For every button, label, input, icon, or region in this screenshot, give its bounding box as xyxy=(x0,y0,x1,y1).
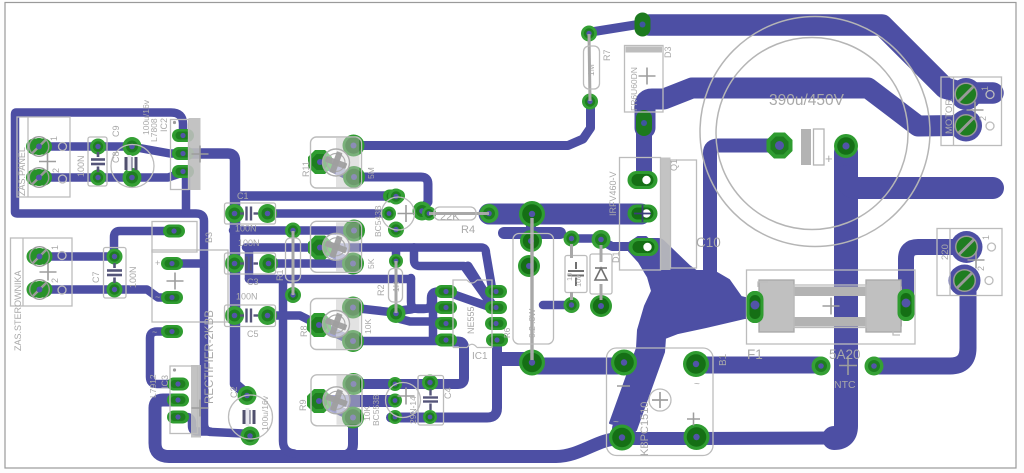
svg-text:10K: 10K xyxy=(363,319,373,334)
svg-text:5M: 5M xyxy=(366,167,376,179)
transistor Q3 pads xyxy=(388,377,402,391)
resistor R7 outline xyxy=(589,34,590,101)
svg-text:~: ~ xyxy=(152,327,157,337)
IC3 regulator outline xyxy=(170,366,198,434)
wire: IC1 pin5 down corner to Q3/C4 bottom band xyxy=(391,341,497,418)
svg-text:L7808: L7808 xyxy=(149,118,159,142)
svg-text:D3: D3 xyxy=(663,46,673,58)
capacitor C6 outline xyxy=(565,256,587,293)
wire: y247 extension down to IC1 pin8 xyxy=(414,248,492,289)
svg-text:C5: C5 xyxy=(247,329,259,339)
wire: R2 bottom to IC1 pin3 xyxy=(400,319,444,322)
svg-text:L7912: L7912 xyxy=(148,374,158,398)
transistor Q2 BC543B outline xyxy=(382,197,415,230)
wire: R9 bottom-right down to bottom rail xyxy=(342,418,353,456)
svg-text:KBPC1510: KBPC1510 xyxy=(639,402,651,456)
svg-text:R2: R2 xyxy=(376,284,386,296)
wire: V1 branch to R10 top-right pad xyxy=(233,226,353,235)
transistor Q1 pads xyxy=(628,171,658,189)
wire: horizontal net y279 xyxy=(249,275,411,284)
terminal MOTOR outline xyxy=(941,77,1002,146)
trimmer R9 body xyxy=(311,375,362,426)
transistor Q3 outline xyxy=(386,383,421,418)
wire: R8 top-right to R2 bottom then IC1 pin2 xyxy=(355,308,444,312)
wire: C10 right branch y188 dead-end run xyxy=(846,176,993,188)
wire: IC3 pin2 down to long bottom rail to B1 xyxy=(155,400,837,457)
wire: trigger band R9 top-right to riser xyxy=(355,342,464,385)
svg-text:C2: C2 xyxy=(229,386,239,398)
svg-text:1: 1 xyxy=(49,136,59,141)
wire: C10 left pad to junction blob via x710 xyxy=(710,146,778,297)
wire: Q1 source band down to junction blob xyxy=(648,247,706,288)
svg-text:2: 2 xyxy=(978,116,988,121)
wire: C1 right pad to BC543B base xyxy=(268,209,388,218)
wire: big top feed to MOTOR pin1 xyxy=(649,25,993,93)
wire: R9 wiper diagonal xyxy=(320,402,351,417)
wire: thick power run R4 right pad to Q1 gate row xyxy=(489,204,641,225)
capacitor C5 pads xyxy=(225,306,244,325)
IC3 regulator pads xyxy=(167,378,189,391)
fuse F1 outline xyxy=(747,270,916,344)
capacitor C9 outline xyxy=(111,145,154,188)
IC2 regulator outline xyxy=(171,120,189,190)
svg-text:C3: C3 xyxy=(247,277,259,287)
wire: D1 top to Q1 source pad xyxy=(604,242,628,247)
resistor R5 pads and vias xyxy=(519,201,545,227)
capacitor C6 pads xyxy=(564,231,580,247)
resistor R2 pads xyxy=(389,254,403,268)
wire: screw1 STEROWNIKA to C7 top xyxy=(40,252,114,261)
wire: R10 wiper diagonal xyxy=(320,248,352,264)
wire: branch x283 down to bottom rail xyxy=(283,280,294,454)
svg-text:FR6U60DN: FR6U60DN xyxy=(629,67,639,111)
wire: junction blob fill xyxy=(610,237,753,430)
diode D1 outline xyxy=(590,254,612,294)
resistor R7 pads xyxy=(581,26,597,42)
wire: R5 bottom pad to B1 plus pad xyxy=(536,358,618,375)
svg-text:R11: R11 xyxy=(301,161,311,177)
wire: screw2 row to C8/C9 bottoms and IC2 pin3 xyxy=(40,173,183,178)
trimmer R10 body xyxy=(311,221,362,272)
svg-text:100N: 100N xyxy=(236,292,258,302)
svg-text:~: ~ xyxy=(613,417,619,428)
capacitor C8 outline xyxy=(88,137,107,186)
diode D3 outline xyxy=(625,46,664,113)
svg-text:R7: R7 xyxy=(602,49,612,61)
capacitor C7 pads xyxy=(107,249,123,265)
wire: R11 wiper diagonal xyxy=(320,162,353,178)
wire: R5 top via link xyxy=(526,216,536,240)
svg-text:ZAS.PANEL: ZAS.PANEL xyxy=(17,147,27,196)
capacitor C10 pads xyxy=(767,133,793,159)
svg-text:C1: C1 xyxy=(237,191,249,201)
trimmer R9 pads xyxy=(307,389,331,413)
wire: R9 left pad to Q3 base xyxy=(320,395,393,407)
wire: IC3 pin3 stub to gnd rail end xyxy=(178,417,210,432)
wire: fuse right pad up and over to 220 pin1 xyxy=(906,247,961,298)
wire: B1 diagonal to minus pad xyxy=(624,351,650,429)
capacitor C10 outline xyxy=(700,17,930,247)
svg-text:0.2 .3W: 0.2 .3W xyxy=(527,309,537,338)
svg-text:22K: 22K xyxy=(440,211,460,223)
trimmer R11 body xyxy=(311,137,362,188)
wire: C3 right pad to R10 bottom-right pad xyxy=(269,259,352,268)
fuse F1 pads xyxy=(747,291,764,323)
wire: C6 top to D1 top xyxy=(575,234,600,243)
svg-text:B1: B1 xyxy=(718,353,729,366)
svg-text:D1: D1 xyxy=(611,251,621,263)
wire: D3/Q1 node feed to MOTOR pin2 xyxy=(645,88,957,128)
wire: IC2 pin3 stub to gnd rail xyxy=(182,172,191,213)
svg-text:MOTOR: MOTOR xyxy=(944,99,955,134)
wire: IC1 pin1-pin4 vertical tie xyxy=(429,294,438,338)
svg-text:10: 10 xyxy=(565,273,574,281)
svg-text:100N: 100N xyxy=(76,155,86,177)
svg-text:1M: 1M xyxy=(586,64,596,76)
svg-text:Q1: Q1 xyxy=(669,159,679,171)
wire: B2 minus pad left and down to IC3 pin1 xyxy=(150,332,177,385)
wire: C7 top up to B3 pad xyxy=(114,231,171,252)
collector pad from R11 xyxy=(413,202,432,221)
IC2 regulator pads xyxy=(172,129,194,142)
svg-text:IRFV460-V: IRFV460-V xyxy=(608,171,618,216)
trimmer R10 pads xyxy=(308,236,332,260)
capacitor C3 pads xyxy=(225,254,244,273)
wire: R2 bottom pad tie xyxy=(396,310,411,314)
svg-text:R4: R4 xyxy=(461,224,475,236)
wire: R2 top stub xyxy=(392,248,401,261)
wire: C10 right pad down between NTC pads to bottom rail xyxy=(834,152,846,438)
svg-text:BC553B: BC553B xyxy=(371,394,381,426)
wire: NTC right to 220 pin2 xyxy=(878,285,968,366)
bridge B3 outline xyxy=(152,222,197,253)
wire: IC1 pin5 branch to R5 bottom pad xyxy=(499,352,524,366)
terminal MOTOR screw pads xyxy=(950,78,982,110)
wire: R11 bottom-right pad to BC543B collector pad xyxy=(362,177,428,209)
wire: horizontal net y247 C3 area to R2 top xyxy=(246,243,414,252)
NTC pads xyxy=(812,357,831,376)
svg-text:2: 2 xyxy=(976,266,986,271)
terminal ZAS.STEROWNIKA outline xyxy=(11,238,73,306)
terminal 220 outline xyxy=(937,229,1002,296)
svg-text:1: 1 xyxy=(981,235,991,240)
svg-text:5A20: 5A20 xyxy=(829,347,861,362)
trimmer R8 body xyxy=(311,299,362,350)
svg-text:NE555: NE555 xyxy=(466,306,476,334)
svg-text:+: + xyxy=(155,258,160,268)
svg-text:1K: 1K xyxy=(391,281,401,292)
svg-text:R9: R9 xyxy=(298,399,308,411)
wire: y247 corner down to y266 then diagonal to IC1 pin7 xyxy=(414,248,491,305)
bridge B1 outline xyxy=(607,348,714,456)
trimmer R11 pads xyxy=(308,150,332,174)
wire: D3 bottom to Q1 drain pad xyxy=(636,127,652,177)
svg-text:100N: 100N xyxy=(238,238,260,248)
svg-text:ZAS.STEROWNIKA: ZAS.STEROWNIKA xyxy=(13,270,23,351)
terminal 220 screw pads xyxy=(951,231,983,263)
wire: B1 ac pad to NTC left xyxy=(699,357,818,374)
wire: IC2 pin2 output to vertical rail V1 down to C2 xyxy=(183,154,246,394)
svg-text:F1: F1 xyxy=(747,347,763,362)
resistor R2 outline xyxy=(395,261,398,313)
wire: R8 bottom-right to IC1 pin4 xyxy=(355,337,444,346)
trimmer R8 pads xyxy=(307,313,331,337)
resistor R5 outline xyxy=(530,218,533,360)
IC1 NE555 pads xyxy=(435,285,457,298)
NTC cross xyxy=(839,356,857,375)
capacitor C1 outline xyxy=(225,203,276,224)
svg-text:29N-14: 29N-14 xyxy=(408,396,418,424)
svg-text:1: 1 xyxy=(980,86,990,91)
wire: IC1 pin1 diagonal to pin7 xyxy=(447,292,491,308)
capacitor C5 outline xyxy=(225,305,276,327)
wire: short thick stub y233 xyxy=(504,227,560,239)
wire: stub from y247 trace down to y279 trace xyxy=(245,248,254,279)
svg-text:1: 1 xyxy=(50,245,60,250)
terminal ZAS.STEROWNIKA screw pads xyxy=(27,247,53,267)
capacitor C4 outline xyxy=(418,376,444,426)
wire: C9 top diagonal to IC2 pin2 xyxy=(131,147,182,154)
svg-text:RECTIFIER-2KBB: RECTIFIER-2KBB xyxy=(204,310,216,404)
fuse F1 pads over silk xyxy=(747,291,764,323)
rectifier B2 outline xyxy=(152,250,228,322)
bridge B1 pads xyxy=(611,350,637,376)
terminal ZAS.PANEL outline xyxy=(17,117,70,197)
svg-text:NTC: NTC xyxy=(834,379,856,391)
capacitor C3 outline xyxy=(225,253,276,274)
IC1 NE555 outline xyxy=(453,280,492,348)
wire: y279 corner down to node then up to IC1 pin1 xyxy=(411,278,444,309)
wire: junction blob to fuse left pad xyxy=(655,292,752,315)
wire: screw1 row to C8/C9 tops xyxy=(40,142,131,151)
capacitor C1 pads xyxy=(225,204,244,223)
svg-text:C7: C7 xyxy=(91,271,101,283)
svg-text:R8: R8 xyxy=(299,325,309,337)
svg-text:100N: 100N xyxy=(235,224,257,234)
via on floating net xyxy=(383,190,405,203)
wire: ZAS.PANEL supply loop to IC2 pin1 and gnd rail xyxy=(15,113,243,434)
resistor R1 outline xyxy=(292,231,295,295)
svg-text:2: 2 xyxy=(50,278,60,283)
resistor R4 pads xyxy=(422,207,436,221)
wire: R7 top diagonal to D3 top pad xyxy=(591,24,641,32)
resistor R4 outline xyxy=(429,212,489,215)
rectifier B2 pads xyxy=(161,257,183,270)
svg-text:100N: 100N xyxy=(128,266,138,288)
capacitor C7 outline xyxy=(104,248,127,299)
svg-text:+: + xyxy=(825,151,833,166)
svg-text:10v: 10v xyxy=(574,275,583,287)
svg-text:5K: 5K xyxy=(366,258,376,269)
capacitor C2 pads xyxy=(238,386,257,405)
svg-text:2: 2 xyxy=(51,168,61,173)
diode D3 pads xyxy=(635,13,651,37)
svg-text:~: ~ xyxy=(155,292,160,302)
wire: R11 top-right pad long run to R7 bottom xyxy=(354,103,591,146)
capacitor C9 pads xyxy=(123,137,142,156)
svg-text:C4: C4 xyxy=(443,387,453,399)
wire: C5 right pad to R8 left pad xyxy=(268,316,318,325)
wire: R8 wiper diagonal xyxy=(319,325,352,341)
transistor Q2 BC543B pads xyxy=(388,189,404,205)
svg-text:IC2: IC2 xyxy=(159,118,169,132)
wire: steep diagonal into pin7 xyxy=(468,266,491,303)
resistor R1 pads xyxy=(285,223,301,239)
capacitor C4 pads xyxy=(422,375,438,391)
wire: floating net y196 with via xyxy=(236,191,394,201)
svg-text:390u/450V: 390u/450V xyxy=(769,92,845,109)
capacitor C8 pads xyxy=(90,139,106,155)
svg-text:IC3: IC3 xyxy=(160,375,170,389)
bridge B3 pad xyxy=(163,225,185,238)
svg-text:C8: C8 xyxy=(111,151,121,163)
svg-text:B3: B3 xyxy=(204,232,214,243)
wire: C6 bottom stub xyxy=(543,301,570,310)
svg-text:R1: R1 xyxy=(275,269,285,281)
svg-text:R6: R6 xyxy=(503,327,512,338)
transistor Q1 outline xyxy=(620,158,661,271)
diode D1 pads xyxy=(592,230,611,249)
capacitor C2 outline xyxy=(229,395,273,439)
svg-text:IC1: IC1 xyxy=(472,351,488,362)
wire: B2 plus pad to gnd-rail tee xyxy=(172,259,203,268)
wire: screw2 STEROWNIKA to C7 bottom to B2 ac1 xyxy=(40,290,170,298)
svg-text:BC543B: BC543B xyxy=(373,205,383,237)
svg-text:C10: C10 xyxy=(696,235,721,250)
svg-text:~: ~ xyxy=(694,379,700,390)
terminal ZAS.PANEL screw pads xyxy=(26,137,52,157)
svg-text:C9: C9 xyxy=(111,125,121,137)
svg-text:100u/16v: 100u/16v xyxy=(260,395,270,431)
svg-text:220: 220 xyxy=(940,244,951,260)
